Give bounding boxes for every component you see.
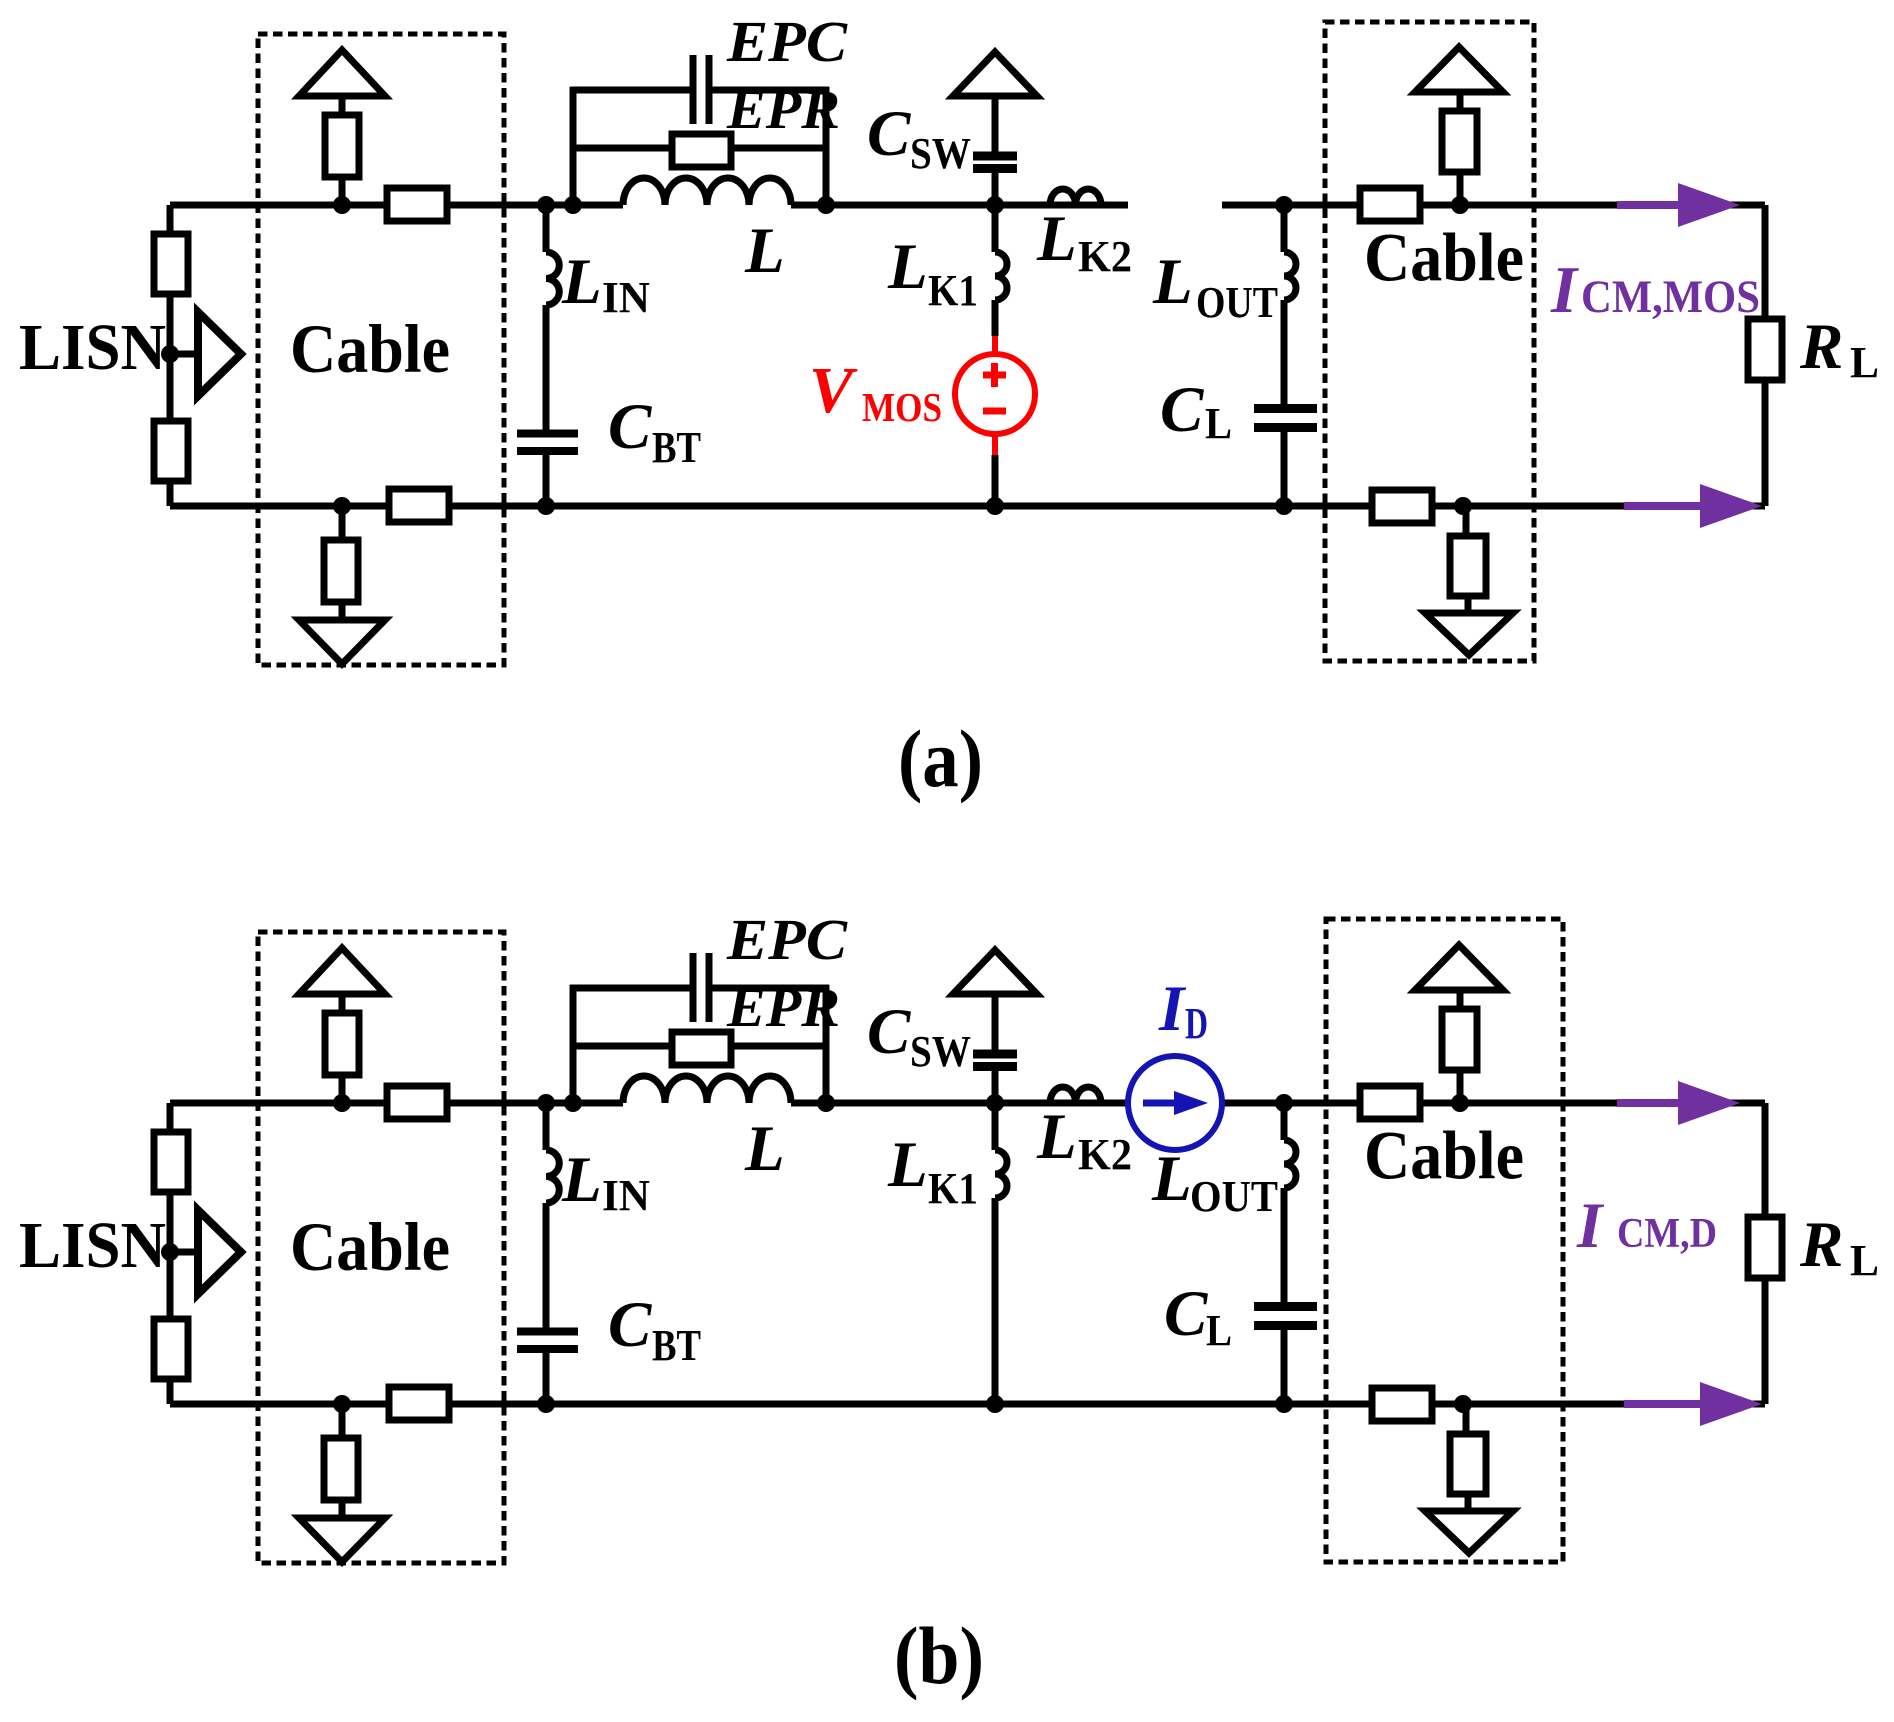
- node: switching node (a): [986, 196, 1004, 214]
- svg-text:K2: K2: [1078, 1130, 1132, 1179]
- svg-text:L: L: [561, 1144, 602, 1216]
- svg-text:L: L: [1151, 1143, 1192, 1215]
- node: switch-node side of L (a): [817, 196, 835, 214]
- ground: right cable earth (top) (b): [1415, 945, 1503, 990]
- wire: LOUT to CL (b): [1281, 1188, 1288, 1306]
- resistor: left cable shunt bottom (a): [324, 540, 358, 602]
- wire: EPR branch right (b): [731, 1043, 826, 1050]
- wire: EPC top branch left (b): [570, 985, 690, 992]
- wire: top rail middle segment (b): [791, 1100, 1128, 1107]
- wire: bottom rail (b): [170, 1401, 1765, 1408]
- wire: top rail right segment (a): [1222, 202, 1765, 209]
- wire: LK1 to bottom rail (b): [992, 1198, 999, 1404]
- svg-text:K1: K1: [928, 1164, 978, 1213]
- wire: stub earth to resistor (b): [339, 994, 346, 1014]
- svg-text:L: L: [744, 1113, 785, 1185]
- resistor: right cable shunt bottom (b): [1450, 1434, 1486, 1494]
- svg-text:SW: SW: [910, 1027, 971, 1076]
- wire: EPC top branch right (b): [712, 985, 829, 992]
- resistor: left cable shunt bottom (b): [324, 1438, 358, 1500]
- inductor LIN (b): [546, 1150, 559, 1203]
- svg-text:R: R: [1799, 1209, 1843, 1281]
- svg-text:C: C: [867, 98, 911, 170]
- wire: LOUT upper stub (b): [1281, 1103, 1288, 1140]
- inductor LK1 (b): [995, 1150, 1007, 1198]
- capacitor EPC (b): [690, 953, 697, 1022]
- node: left cable top junction (b): [333, 1094, 351, 1112]
- node: input branch top (a): [537, 196, 555, 214]
- svg-text:MOS: MOS: [862, 384, 942, 430]
- node: LK1 bottom junction (b): [986, 1395, 1004, 1413]
- ground: left cable earth (top) (b): [299, 948, 385, 994]
- wire: LK1 upper stub (a): [992, 205, 999, 252]
- wire: LIN to CBT (a): [543, 305, 550, 430]
- svg-text:C: C: [608, 391, 652, 463]
- resistor: LISN upper impedance (a): [154, 234, 188, 294]
- wire: stub rail to shunt resistor top (a): [1457, 173, 1464, 205]
- cable model box right (a): [1325, 22, 1534, 661]
- svg-text:CM,MOS: CM,MOS: [1581, 271, 1760, 323]
- svg-text:L: L: [561, 246, 602, 318]
- svg-text:EPC: EPC: [726, 907, 848, 972]
- resistor: right cable shunt bottom (a): [1450, 536, 1486, 596]
- wire: VMOS top lead (red): [992, 336, 998, 356]
- ground: left cable earth (bottom) (b): [299, 1518, 385, 1562]
- wire: LOUT to CL (a): [1281, 300, 1288, 408]
- svg-text:BT: BT: [652, 1321, 701, 1370]
- wire: LISN left vertical trunk (a): [167, 205, 174, 506]
- svg-text:LISN: LISN: [19, 311, 166, 384]
- resistor: LISN upper impedance (b): [154, 1132, 188, 1192]
- resistor: left cable shunt top (a): [325, 115, 359, 177]
- svg-text:EPC: EPC: [726, 9, 848, 74]
- wire: EPC/EPR right riser (a): [823, 87, 830, 205]
- svg-text:(b): (b): [894, 1610, 984, 1701]
- svg-text:R: R: [1799, 311, 1843, 383]
- svg-text:L: L: [1036, 1101, 1077, 1173]
- node: input branch bottom (b): [537, 1395, 555, 1413]
- svg-text:OUT: OUT: [1196, 278, 1278, 327]
- resistor: right cable series bottom (b): [1372, 1388, 1432, 1421]
- resistor: right cable shunt top (a): [1442, 111, 1477, 172]
- cable model box left (a): [258, 34, 504, 665]
- node: left cable top junction (a): [333, 196, 351, 214]
- ground: right cable earth (bottom) (a): [1425, 613, 1513, 655]
- node: LISN measurement tap (b): [161, 1243, 179, 1261]
- ground: left cable earth (bottom) (a): [299, 620, 385, 664]
- wire: stub rail to shunt resistor bottom (a): [1463, 506, 1470, 537]
- polarity minus of VMOS: [983, 408, 1006, 415]
- svg-text:D: D: [1185, 999, 1208, 1048]
- node: EPC riser left junction (a): [564, 196, 582, 214]
- wire: stub rail to resistor bottom (b): [339, 1404, 346, 1439]
- wire: LIN branch upper (b): [543, 1103, 550, 1150]
- arrow of current source ID: [1143, 1100, 1178, 1107]
- wire: EPC/EPR right riser (b): [823, 985, 830, 1103]
- wire: CBT to bottom rail (b): [543, 1353, 550, 1404]
- inductor L (boost) (a): [623, 178, 791, 205]
- wire: EPC/EPR left riser (b): [570, 985, 577, 1103]
- wire: CSW upper stub (b): [992, 992, 999, 1050]
- probe symbol: LISN measurement port triangle (b): [198, 1210, 241, 1294]
- svg-text:L: L: [887, 1129, 928, 1201]
- resistor RL (b): [1748, 1217, 1782, 1278]
- resistor: left cable series top (b): [387, 1086, 447, 1119]
- ground: chassis earth above CSW (b): [953, 950, 1037, 994]
- wire: stub rail to resistor bottom (a): [339, 506, 346, 541]
- capacitor CBT (a): [517, 430, 578, 438]
- svg-text:C: C: [867, 996, 911, 1068]
- resistor EPR (b): [672, 1032, 731, 1065]
- wire: LISN left vertical trunk (b): [167, 1103, 174, 1404]
- wire: LOUT upper stub (a): [1281, 205, 1288, 252]
- node: output branch top (a): [1275, 196, 1293, 214]
- capacitor EPC (a): [690, 55, 697, 124]
- wire: CSW lower stub (b): [992, 1071, 999, 1103]
- wire: top rail right segment (b): [1222, 1100, 1765, 1107]
- node: switch-node side of L (b): [817, 1094, 835, 1112]
- current arrow: CM current bottom (b): [1624, 1400, 1702, 1408]
- svg-text:I: I: [1158, 973, 1187, 1045]
- node: LK1 bottom junction (a): [986, 497, 1004, 515]
- wire: stub shunt resistor to earth bottom (a): [1465, 596, 1472, 614]
- node: switching node (b): [986, 1094, 1004, 1112]
- node: left cable bottom junction (b): [333, 1395, 351, 1413]
- inductor LK2 (b): [1050, 1087, 1101, 1103]
- capacitor CSW (a): [973, 152, 1017, 161]
- svg-text:IN: IN: [602, 1171, 650, 1220]
- wire: stub resistor to earth bottom (b): [339, 1500, 346, 1519]
- svg-text:L: L: [1850, 1236, 1879, 1285]
- wire: EPR branch right (a): [731, 145, 826, 152]
- resistor: right cable series bottom (a): [1372, 490, 1432, 523]
- wire: LISN tap stub (b): [170, 1249, 198, 1256]
- wire: CL to bottom rail (a): [1281, 428, 1288, 506]
- node: left cable bottom junction (a): [333, 497, 351, 515]
- ground: right cable earth (bottom) (b): [1425, 1511, 1513, 1553]
- cable model box right (b): [1326, 919, 1563, 1562]
- resistor: LISN lower impedance (a): [154, 421, 188, 481]
- node: LISN measurement tap (a): [161, 345, 179, 363]
- capacitor CL (a): [1254, 404, 1317, 413]
- svg-text:C: C: [1160, 374, 1204, 446]
- resistor: left cable shunt top (b): [325, 1013, 359, 1075]
- wire: top rail left segment (a): [170, 202, 623, 209]
- svg-text:L: L: [887, 231, 928, 303]
- polarity plus of VMOS: [983, 372, 1006, 379]
- svg-text:BT: BT: [652, 423, 701, 472]
- svg-text:SW: SW: [910, 129, 971, 178]
- svg-text:Cable: Cable: [1364, 1118, 1524, 1194]
- node: right cable top junction (b): [1451, 1094, 1469, 1112]
- wire: load right vertical (b): [1762, 1103, 1769, 1404]
- capacitor CL (b): [1254, 1302, 1317, 1311]
- cable model box left (b): [258, 932, 504, 1563]
- wire: stub shunt resistor to earth top (a): [1457, 93, 1464, 111]
- resistor: left cable series bottom (b): [389, 1387, 449, 1420]
- wire: LIN to CBT (b): [543, 1203, 550, 1328]
- current arrow: CM current bottom (a): [1624, 502, 1702, 510]
- node: output branch bottom (a): [1275, 497, 1293, 515]
- inductor LOUT (b): [1284, 1140, 1296, 1188]
- wire: top rail middle segment (a): [791, 202, 1128, 209]
- wire: LIN branch upper (a): [543, 205, 550, 252]
- resistor: left cable series bottom (a): [389, 489, 449, 522]
- node: EPC riser left junction (b): [564, 1094, 582, 1112]
- inductor LIN (a): [546, 252, 559, 305]
- wire: CSW upper stub (a): [992, 94, 999, 152]
- wire: EPR branch left (a): [573, 145, 672, 152]
- svg-text:Cable: Cable: [290, 1209, 450, 1285]
- wire: LK1 to VMOS (black): [992, 300, 999, 336]
- wire: stub resistor to earth bottom (a): [339, 602, 346, 621]
- capacitor CBT (b): [517, 1328, 578, 1336]
- wire: EPR branch left (b): [573, 1043, 672, 1050]
- resistor: left cable series top (a): [387, 188, 447, 221]
- wire: CSW lower stub (a): [992, 173, 999, 205]
- node: input branch bottom (a): [537, 497, 555, 515]
- wire: load right vertical (a): [1762, 205, 1769, 506]
- wire: LISN tap stub (a): [170, 351, 198, 358]
- wire: VMOS bottom lead (red): [992, 434, 998, 455]
- ground: left cable earth (top) (a): [299, 50, 385, 96]
- wire: stub shunt resistor to earth top (b): [1457, 991, 1464, 1009]
- capacitor CSW (b): [973, 1050, 1017, 1059]
- svg-text:OUT: OUT: [1190, 1172, 1278, 1221]
- node: input branch top (b): [537, 1094, 555, 1112]
- svg-text:L: L: [1206, 1306, 1232, 1355]
- wire: VMOS to bottom rail (black): [992, 455, 999, 506]
- wire: stub rail to shunt resistor bottom (b): [1463, 1404, 1470, 1435]
- svg-text:K2: K2: [1078, 232, 1132, 281]
- wire: EPC top branch left (a): [570, 87, 690, 94]
- node: output branch bottom (b): [1275, 1395, 1293, 1413]
- svg-text:I: I: [1550, 253, 1579, 327]
- svg-text:Cable: Cable: [290, 311, 450, 387]
- current arrow: CM current top (b): [1617, 1099, 1680, 1107]
- svg-text:L: L: [1036, 203, 1077, 275]
- resistor: right cable shunt top (b): [1442, 1009, 1477, 1070]
- resistor: LISN lower impedance (b): [154, 1319, 188, 1379]
- svg-text:V: V: [809, 354, 858, 427]
- wire: stub shunt resistor to earth bottom (b): [1465, 1494, 1472, 1512]
- wire: CBT to bottom rail (a): [543, 455, 550, 506]
- ground: chassis earth above CSW (a): [953, 52, 1037, 96]
- node: right cable bottom junction (a): [1454, 497, 1472, 515]
- svg-text:K1: K1: [928, 266, 978, 315]
- resistor: right cable series top (a): [1360, 188, 1420, 221]
- svg-text:L: L: [1850, 338, 1879, 387]
- wire: CL to bottom rail (b): [1281, 1326, 1288, 1404]
- inductor LOUT (a): [1284, 252, 1296, 300]
- wire: stub earth to resistor (a): [339, 96, 346, 116]
- node: right cable bottom junction (b): [1454, 1395, 1472, 1413]
- current source ID: [1128, 1056, 1222, 1150]
- resistor: right cable series top (b): [1360, 1086, 1420, 1119]
- svg-text:LISN: LISN: [19, 1209, 166, 1282]
- wire: EPC/EPR left riser (a): [570, 87, 577, 205]
- voltage source VMOS: [955, 354, 1035, 434]
- inductor LK2 (a): [1050, 189, 1101, 205]
- probe symbol: LISN measurement port triangle (a): [198, 312, 241, 396]
- svg-text:L: L: [744, 215, 785, 287]
- ground: right cable earth (top) (a): [1415, 47, 1503, 92]
- wire: LK1 upper stub (b): [992, 1103, 999, 1150]
- inductor L (boost) (b): [623, 1076, 791, 1103]
- wire: stub resistor to rail (b): [339, 1075, 346, 1103]
- svg-text:L: L: [1152, 246, 1193, 318]
- node: output branch top (b): [1275, 1094, 1293, 1112]
- inductor LK1 (a): [995, 252, 1007, 300]
- svg-text:IN: IN: [602, 273, 650, 322]
- resistor RL (a): [1748, 319, 1782, 380]
- wire: stub rail to shunt resistor top (b): [1457, 1071, 1464, 1103]
- node: right cable top junction (a): [1451, 196, 1469, 214]
- wire: EPC top branch right (a): [712, 87, 829, 94]
- svg-text:L: L: [1205, 399, 1232, 448]
- current arrow: CM current top (a): [1617, 201, 1680, 209]
- wire: stub resistor to rail (a): [339, 177, 346, 205]
- svg-text:C: C: [608, 1289, 652, 1361]
- resistor EPR (a): [672, 134, 731, 167]
- svg-text:I: I: [1576, 1190, 1605, 1262]
- svg-text:Cable: Cable: [1364, 220, 1524, 296]
- svg-text:C: C: [1164, 1278, 1208, 1350]
- svg-text:CM,D: CM,D: [1617, 1211, 1717, 1257]
- svg-text:(a): (a): [898, 713, 983, 804]
- wire: bottom rail (a): [170, 503, 1765, 510]
- wire: top rail left segment (b): [170, 1100, 623, 1107]
